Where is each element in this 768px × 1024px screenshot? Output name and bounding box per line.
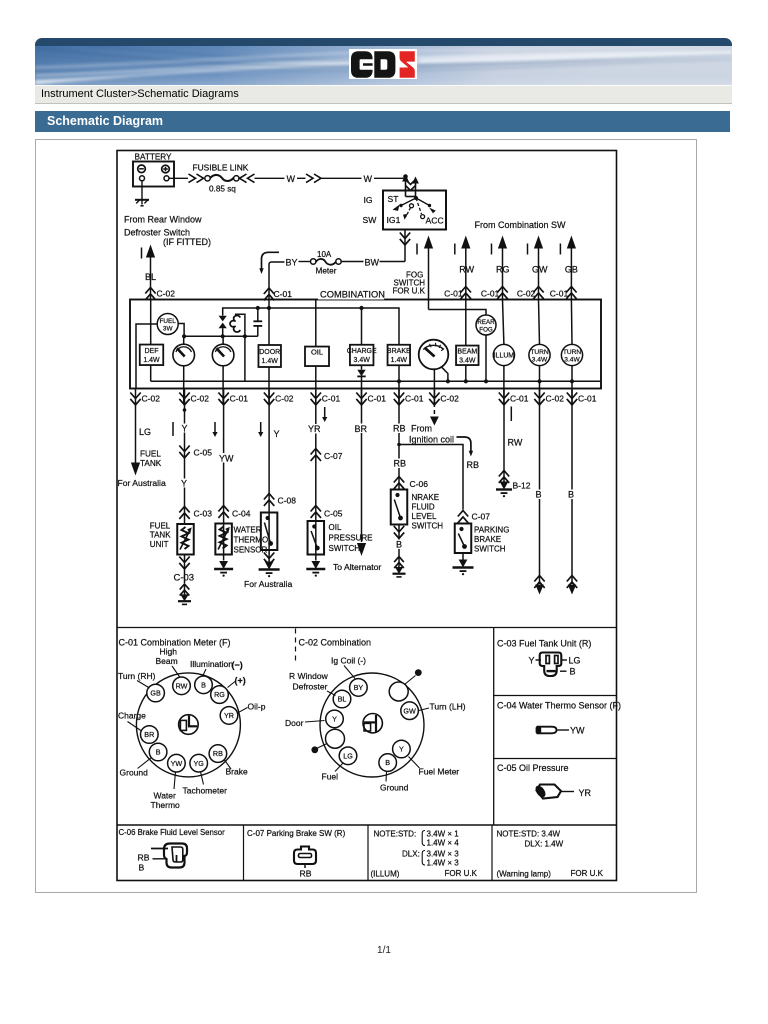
pin RW of C-01 [173, 677, 191, 695]
bottom table top border [117, 824, 617, 826]
section header bar [35, 111, 730, 132]
wire col5 YR [315, 403, 317, 561]
svg-text:1.4W × 4: 1.4W × 4 [427, 839, 460, 848]
svg-text:For Australia: For Australia [244, 579, 292, 589]
connector below C-08 switch [264, 553, 274, 565]
tick col9 [510, 407, 512, 422]
tick at GB [559, 244, 561, 255]
svg-text:LEVEL: LEVEL [412, 512, 437, 521]
svg-text:DOOR: DOOR [259, 349, 280, 356]
svg-text:NOTE:STD:: NOTE:STD: [374, 830, 417, 839]
svg-text:C-02: C-02 [517, 289, 536, 299]
wire oil lamp to connector [315, 366, 317, 404]
svg-text:RG: RG [214, 690, 225, 699]
svg-text:Turn (LH): Turn (LH) [430, 702, 466, 712]
svg-text:C-01: C-01 [578, 394, 597, 404]
svg-text:C-02: C-02 [191, 394, 210, 404]
connector C-02 below meter col10 [539, 389, 541, 405]
connector C-01 at BY [264, 288, 274, 300]
pin Y of C-02 [326, 710, 344, 728]
svg-text:PRESSURE: PRESSURE [329, 534, 373, 543]
svg-text:Brake: Brake [226, 767, 248, 777]
svg-text:LG: LG [569, 656, 581, 666]
connector C-02 below meter col4 [268, 389, 270, 405]
center key of C-02 [363, 714, 382, 733]
svg-text:To Alternator: To Alternator [333, 562, 381, 572]
svg-text:Water: Water [154, 791, 177, 801]
svg-text:Ignition coil: Ignition coil [409, 435, 454, 445]
battery negative terminal [138, 165, 146, 173]
pin BY of C-02 [350, 679, 368, 697]
continuation arrow from ignition coil [457, 437, 471, 453]
svg-text:FUEL: FUEL [150, 522, 171, 531]
svg-text:ST: ST [388, 194, 400, 204]
fuel tank unit sender [177, 524, 194, 555]
wire DEF to bottom bus [150, 365, 152, 381]
svg-text:BR: BR [144, 730, 154, 739]
svg-text:C-02 Combination: C-02 Combination [299, 638, 372, 648]
lamp FUEL 3W [157, 314, 178, 335]
svg-text:GB: GB [150, 689, 161, 698]
flow arrow col4 [260, 422, 262, 433]
wire charge lamp feed [361, 308, 363, 345]
wire col2 Y [184, 403, 186, 525]
svg-text:From Rear Window: From Rear Window [124, 215, 202, 225]
svg-text:BEAM: BEAM [457, 349, 477, 356]
svg-text:TURN: TURN [530, 349, 549, 356]
svg-text:B: B [139, 863, 145, 873]
ignition switch U1 box [383, 191, 446, 230]
tick at RW [454, 244, 456, 255]
svg-text:RB: RB [467, 460, 480, 470]
svg-text:Door: Door [285, 718, 304, 728]
junction dot charge feed [359, 306, 363, 310]
wire W segment 3 [321, 177, 362, 179]
wire col10 B [539, 403, 541, 585]
wire label Y col2 [181, 424, 189, 433]
switch S1 (C-08) [261, 513, 278, 551]
junction dot link-diode [221, 334, 225, 338]
ground oil pressure switch [311, 561, 320, 569]
svg-text:C-03: C-03 [174, 573, 195, 584]
wire label YW [219, 453, 235, 463]
wire GW from combination switch [534, 236, 543, 249]
svg-text:From: From [411, 424, 432, 434]
speedometer gauge [419, 340, 449, 370]
table divider C-07/NOTE [367, 825, 369, 881]
svg-text:TANK: TANK [150, 531, 171, 540]
inductor L1 [235, 314, 245, 336]
svg-text:Y: Y [399, 745, 404, 754]
connector C-01 below meter col7 [398, 389, 400, 405]
junction dot beam-bus [464, 379, 468, 383]
svg-text:RB: RB [394, 459, 407, 469]
svg-text:FUEL: FUEL [160, 318, 177, 325]
svg-text:BY: BY [354, 683, 364, 692]
wire label BR [354, 424, 370, 434]
svg-text:C-05: C-05 [324, 509, 343, 519]
connector C-01 housing [136, 673, 240, 777]
svg-text:Illumination: Illumination [190, 659, 233, 669]
wire battery positive to fusible link [169, 177, 188, 179]
svg-text:C-01: C-01 [274, 289, 293, 299]
parking brake switch [455, 524, 472, 554]
svg-text:NOTE:STD: 3.4W: NOTE:STD: 3.4W [497, 830, 561, 839]
junction dot turn2-bus [570, 379, 574, 383]
wire fuel lamp right lead [178, 324, 184, 337]
ground brake fluid switch [394, 557, 404, 569]
lamp DOOR 1.4W [258, 345, 281, 367]
wire oil lamp feed [315, 300, 317, 347]
divider between schematic and connector views [117, 627, 617, 629]
svg-text:DEF: DEF [145, 348, 159, 355]
lamp CHARGE 3.4W [350, 345, 374, 366]
center key of C-01 [179, 715, 199, 735]
connector C-01 on GB [566, 287, 576, 299]
svg-text:Y: Y [274, 429, 280, 439]
svg-text:3.4W: 3.4W [564, 356, 580, 363]
svg-text:BY: BY [286, 258, 298, 268]
svg-text:C-01: C-01 [481, 289, 500, 299]
pin B of C-02 [379, 754, 397, 772]
svg-text:Y: Y [182, 424, 188, 434]
pin RG of C-01 [211, 686, 229, 704]
oil pressure switch [308, 521, 325, 555]
svg-text:For Australia: For Australia [118, 478, 166, 488]
combination meter box [130, 300, 601, 389]
junction dot turn1-bus [537, 379, 541, 383]
index mark top right C-02 [415, 669, 422, 676]
svg-text:YR: YR [308, 424, 321, 434]
svg-text:SWITCH: SWITCH [474, 545, 506, 554]
lamp DEF 1.4W [140, 345, 164, 366]
wire RW from combination switch [461, 236, 470, 249]
icon C-03 connector [540, 653, 562, 677]
fusible link element [205, 176, 210, 181]
junction dot brake-bus [397, 379, 401, 383]
icon C-05 sensor [537, 785, 562, 799]
pin YR of C-01 [220, 707, 238, 725]
svg-text:Ground: Ground [120, 768, 149, 778]
wire label YR [308, 424, 324, 434]
wire parking brake to ground [462, 553, 464, 560]
divider C-04/C-05 rows [494, 758, 617, 760]
wire speedometer hook to bus [442, 367, 448, 381]
connector C-05 col2 [179, 446, 189, 458]
wire illum lamp feed [503, 300, 504, 345]
connector C-02 on GW [533, 287, 543, 299]
wire door lamp to connector [268, 367, 270, 404]
wire gauge1 top [183, 336, 185, 344]
lamp BRAKE 1.4W [388, 345, 411, 366]
wire gauge2 top [222, 336, 224, 344]
connector below brake fluid switch [394, 526, 404, 538]
continuation arrow at BY [262, 252, 280, 270]
wire branch to parking brake switch [397, 443, 401, 447]
connector C-04 col3 [218, 506, 228, 518]
svg-text:Ground: Ground [380, 783, 409, 793]
svg-text:THERMO: THERMO [234, 536, 269, 545]
wire W segment 1 [255, 177, 285, 179]
svg-text:YR: YR [579, 788, 592, 798]
wire col11 B [571, 403, 573, 585]
table divider C-06/C-07 [243, 825, 245, 881]
lamp BEAM 3.4W [456, 346, 479, 366]
wire col9 RW [503, 403, 505, 483]
svg-text:Beam: Beam [156, 656, 178, 666]
ground B-12 [500, 482, 509, 490]
svg-text:B: B [536, 490, 542, 500]
svg-text:BRAKE: BRAKE [387, 348, 411, 355]
diode D1 pair [219, 316, 227, 322]
wire W segment 4 [374, 177, 406, 179]
gauge fuel meter [173, 344, 195, 366]
svg-text:YR: YR [224, 711, 234, 720]
svg-text:C-01: C-01 [322, 394, 341, 404]
svg-text:C-01: C-01 [405, 394, 424, 404]
connector C-05 col5 [311, 506, 321, 518]
ground below battery [135, 199, 149, 201]
svg-text:YW: YW [570, 726, 585, 736]
svg-text:RB: RB [138, 853, 150, 863]
lamp TURN 3.4W right [561, 344, 582, 365]
pin GB of C-01 [147, 684, 165, 702]
svg-text:C-01: C-01 [444, 289, 463, 299]
pin B of C-01 [149, 743, 167, 761]
svg-text:RW: RW [459, 265, 474, 275]
svg-text:FUEL: FUEL [140, 450, 161, 459]
svg-text:RB: RB [300, 869, 312, 879]
svg-text:B: B [396, 540, 402, 550]
svg-text:B: B [385, 758, 390, 767]
wire label Y col2 lower [181, 479, 189, 488]
wire charge diode to connector [361, 377, 363, 405]
svg-text:C-02: C-02 [142, 394, 161, 404]
svg-text:3W: 3W [163, 325, 174, 332]
svg-text:NRAKE: NRAKE [412, 493, 440, 502]
svg-text:C-01: C-01 [510, 394, 529, 404]
connector col10 bottom [534, 576, 544, 588]
svg-text:Defroster Switch: Defroster Switch [124, 228, 190, 238]
pin BL of C-02 [333, 690, 351, 708]
wire gauge1 to connector [183, 366, 185, 404]
junction dot col2 [183, 408, 187, 412]
svg-text:R Window: R Window [289, 671, 329, 681]
svg-text:1.4W: 1.4W [391, 357, 408, 364]
junction dot capacitor [256, 306, 260, 310]
svg-text:C-03 Fuel Tank Unit (R): C-03 Fuel Tank Unit (R) [497, 639, 591, 649]
wire col6 BR [361, 403, 363, 543]
svg-text:IG: IG [364, 195, 373, 205]
pin RB of C-01 [209, 745, 227, 763]
svg-text:OIL: OIL [311, 348, 323, 357]
wire battery negative to ground [141, 181, 143, 205]
wire rear fog to bus [485, 335, 487, 381]
svg-text:DLX:: DLX: [402, 850, 420, 859]
svg-text:RW: RW [508, 438, 523, 448]
svg-text:0.85 sq: 0.85 sq [209, 185, 236, 194]
svg-text:GB: GB [565, 265, 578, 275]
svg-text:3.4W: 3.4W [532, 356, 548, 363]
svg-text:C-07 Parking Brake SW (R): C-07 Parking Brake SW (R) [247, 829, 346, 838]
wire gauge2 to connector [222, 366, 224, 404]
connector C-02 below meter col8 [433, 389, 435, 405]
pin YG of C-01 [190, 754, 208, 772]
svg-text:(IF FITTED): (IF FITTED) [163, 237, 211, 247]
wire ignition switch to meter fuse [404, 230, 406, 262]
svg-text:B: B [568, 490, 574, 500]
wire charge to diode [361, 365, 363, 370]
wire label RB col7 lower [393, 459, 407, 469]
lamp TURN 3.4W left [529, 344, 550, 365]
connector B-12 [499, 471, 509, 483]
svg-text:1.4W × 3: 1.4W × 3 [427, 859, 460, 868]
water thermo sensor [215, 524, 232, 555]
svg-text:WATER: WATER [234, 526, 262, 535]
svg-text:BL: BL [338, 695, 347, 704]
svg-text:ACC: ACC [426, 216, 444, 226]
svg-text:RG: RG [496, 265, 510, 275]
wire RG from combination switch [498, 236, 507, 249]
content area [35, 139, 697, 893]
dashed divider C-01/C-02 sections [295, 629, 297, 665]
svg-text:Charge: Charge [118, 711, 146, 721]
wire col3 YW [223, 403, 225, 561]
svg-text:GW: GW [403, 706, 416, 715]
pin YW of C-01 [168, 754, 186, 772]
svg-text:COMBINATION: COMBINATION [320, 290, 385, 300]
dashed continuation below speedometer connector [433, 403, 435, 418]
svg-text:FUSIBLE LINK: FUSIBLE LINK [193, 163, 249, 173]
pin Y of C-02 [393, 740, 411, 758]
svg-text:SW: SW [363, 215, 378, 225]
divider C-03/C-04 rows [494, 695, 617, 697]
wire illum to connector [503, 366, 505, 404]
connector arrows after fusible link [240, 174, 255, 183]
wire turn LH feed [539, 300, 540, 345]
fog feed wire to rear fog lamp [429, 310, 487, 316]
svg-text:FOG: FOG [479, 326, 493, 333]
svg-text:C-01: C-01 [368, 394, 387, 404]
wire fuel lamp left lead [136, 324, 157, 389]
battery negative post [140, 176, 145, 181]
svg-text:B: B [201, 680, 206, 689]
svg-text:Y: Y [332, 715, 337, 724]
diode D2 charge [357, 370, 365, 376]
svg-text:C-04: C-04 [232, 509, 251, 519]
tick col2 [172, 422, 174, 436]
svg-text:ILLUM: ILLUM [494, 353, 515, 360]
pin GW of C-02 [401, 702, 419, 720]
svg-text:FOR U.K: FOR U.K [393, 287, 426, 296]
icon C-06 connector [164, 844, 187, 868]
icon C-04 sensor [538, 727, 557, 734]
svg-text:FLUID: FLUID [412, 503, 435, 512]
tick at GW [527, 244, 529, 255]
wire label Y col4 [273, 429, 281, 439]
wire brake lamp to connector [398, 365, 400, 404]
connector C-02 below meter col2 [184, 389, 186, 405]
fuse F1 10A element [336, 259, 341, 264]
internal link wire [184, 335, 258, 337]
connector C-01 on RW [461, 287, 471, 299]
tick at BL [141, 248, 143, 259]
junction dot link-gauge1 [182, 334, 186, 338]
svg-text:3.4W × 3: 3.4W × 3 [427, 850, 460, 859]
internal top bus wire [223, 308, 399, 345]
svg-text:3.4W: 3.4W [459, 358, 476, 365]
connector arrows into fusible link [189, 174, 204, 183]
svg-text:SWITCH: SWITCH [329, 544, 361, 553]
page number [0, 945, 768, 956]
connector C-07 parking [458, 511, 468, 523]
svg-text:GW: GW [532, 265, 548, 275]
banner wave graphic [35, 46, 732, 85]
svg-text:YW: YW [219, 454, 234, 464]
svg-text:C-02: C-02 [546, 394, 565, 404]
connector below fuel tank unit [179, 557, 189, 569]
svg-text:Oil-p: Oil-p [248, 702, 266, 712]
wire turn LH to connector [539, 366, 541, 404]
svg-text:C-04 Water Thermo Sensor (F): C-04 Water Thermo Sensor (F) [497, 701, 621, 711]
svg-text:C-07: C-07 [472, 512, 491, 522]
ground parking brake switch [459, 560, 468, 568]
connector on ignition output [400, 233, 410, 245]
svg-text:PARKING: PARKING [474, 526, 509, 535]
svg-text:TURN: TURN [563, 349, 582, 356]
svg-text:3.4W: 3.4W [354, 357, 371, 364]
svg-text:BL: BL [145, 272, 156, 282]
wire col7 RB [398, 403, 400, 490]
label COMBINATION [318, 290, 384, 300]
wire beam lamp feed [465, 300, 467, 346]
arrow col11 bottom [568, 585, 576, 595]
svg-text:RW: RW [176, 681, 188, 690]
wire fog switch [424, 236, 433, 249]
top banner with wave graphic [35, 38, 732, 104]
wire DEF feed [150, 300, 152, 345]
svg-text:RB: RB [213, 749, 223, 758]
connector C-01 below meter col11 [571, 389, 573, 405]
pin blank3 of C-02 [326, 729, 345, 748]
svg-text:From Combination SW: From Combination SW [475, 220, 567, 230]
svg-text:Y: Y [529, 656, 535, 666]
connector C-02 below meter col1 [135, 389, 137, 405]
svg-text:C-01: C-01 [230, 394, 249, 404]
table divider NOTE/NOTE [491, 825, 493, 881]
connector C-06 col7 [394, 477, 404, 489]
svg-text:3.4W × 1: 3.4W × 1 [427, 830, 460, 839]
svg-text:LG: LG [343, 751, 353, 760]
svg-text:(−): (−) [232, 660, 243, 670]
connector C-01 on RG [497, 287, 507, 299]
svg-text:Tachometer: Tachometer [183, 786, 228, 796]
svg-text:LG: LG [139, 427, 151, 437]
wire label BW [364, 258, 380, 267]
wire W segment 2 [297, 177, 306, 179]
GDS logo [349, 49, 417, 79]
svg-text:C-02: C-02 [440, 394, 459, 404]
wire GB from combination switch [567, 236, 576, 249]
connector C-07 col5 [311, 449, 321, 461]
ground fuel tank unit [180, 584, 190, 596]
connector C-01 below meter col6 [361, 389, 363, 405]
ground C-08 switch [265, 562, 274, 570]
wire speedometer to connector [433, 369, 435, 404]
tick at fog wire [416, 244, 418, 255]
flow arrow col3 [214, 422, 216, 433]
svg-text:Thermo: Thermo [151, 800, 181, 810]
